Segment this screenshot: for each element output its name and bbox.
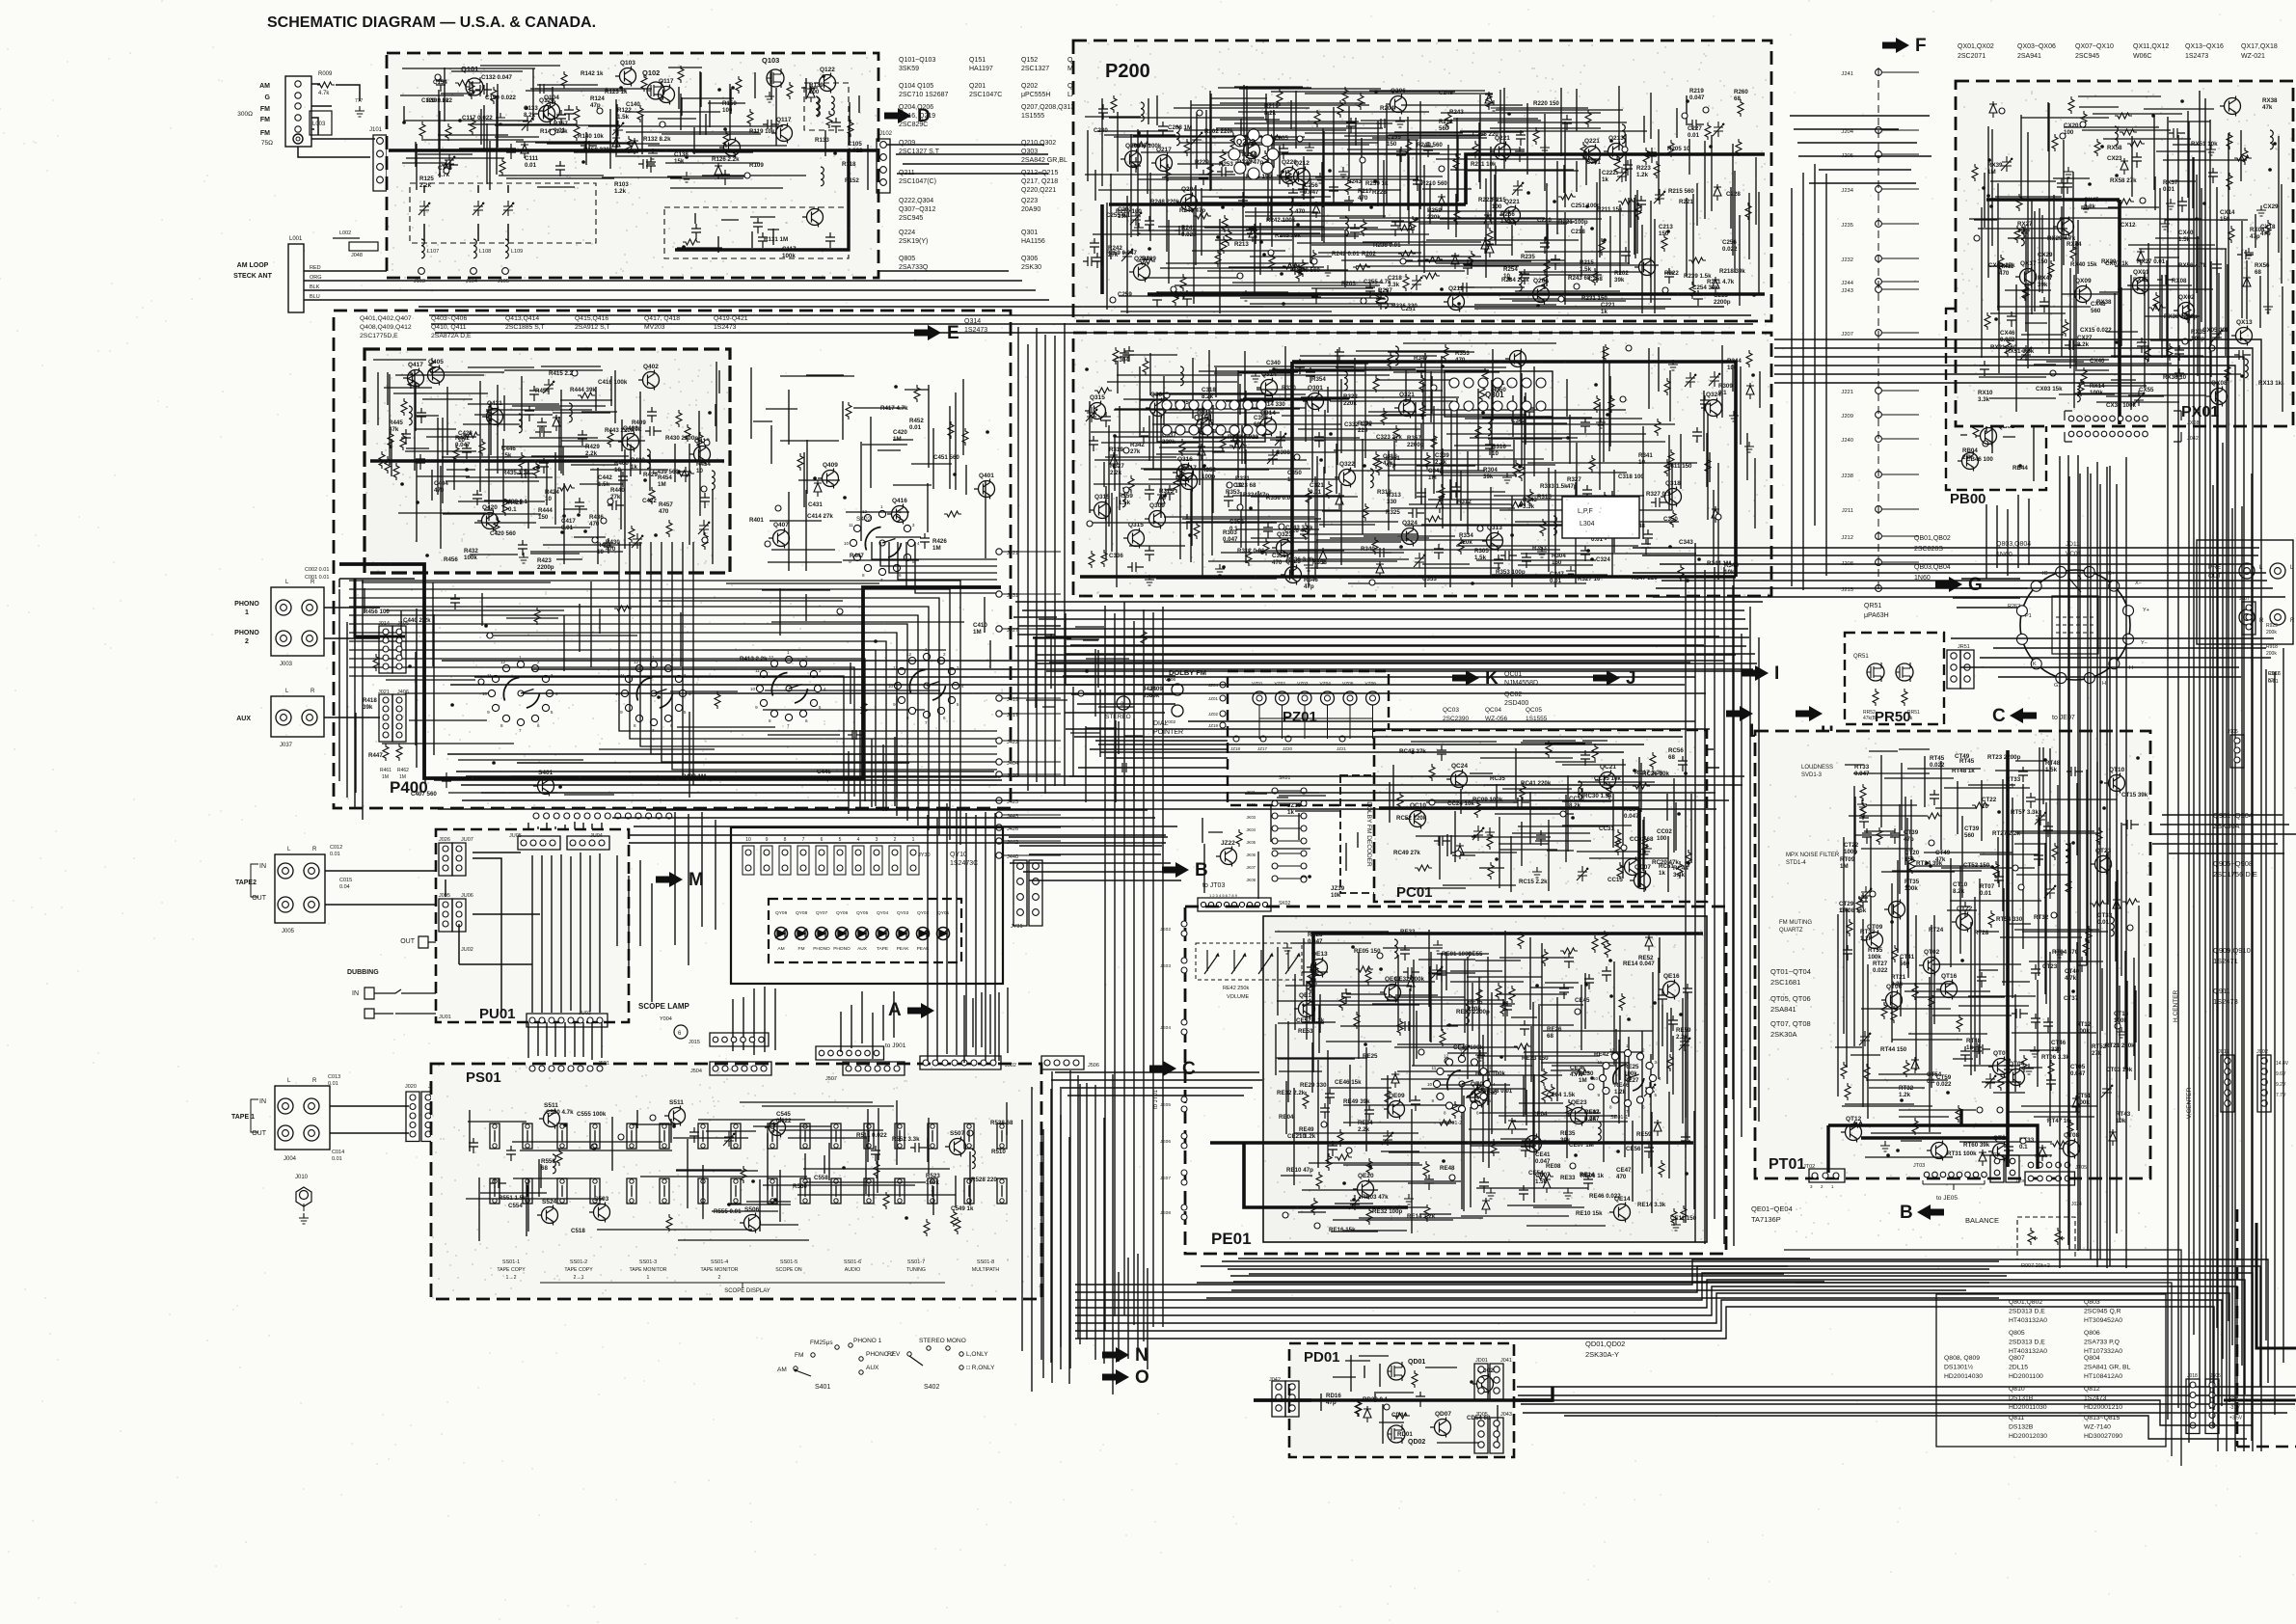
resistor — [1681, 1205, 1687, 1223]
pin — [1429, 799, 1435, 805]
svg-text:2: 2 — [245, 638, 249, 645]
pin — [1477, 526, 1483, 531]
transistor — [1294, 169, 1310, 185]
capacitor — [1408, 508, 1424, 518]
svg-text:POINTER: POINTER — [1153, 729, 1183, 736]
svg-text:8: 8 — [634, 723, 636, 728]
svg-text:1M: 1M — [658, 481, 666, 488]
svg-text:2SK30A-Y: 2SK30A-Y — [1585, 1350, 1619, 1359]
svg-text:Q315: Q315 — [1128, 522, 1144, 528]
svg-text:JU07: JU07 — [461, 837, 473, 843]
svg-text:C518: C518 — [571, 1228, 585, 1234]
pin — [1377, 953, 1383, 959]
transistor — [538, 778, 554, 795]
resistor — [1312, 964, 1318, 982]
svg-text:R351: R351 — [1386, 455, 1400, 462]
svg-text:RX36 10: RX36 10 — [2163, 374, 2187, 381]
resistor — [2063, 319, 2068, 337]
capacitor — [1580, 418, 1590, 433]
resistor — [429, 358, 435, 375]
resistor — [955, 1217, 960, 1234]
pin — [2060, 133, 2066, 139]
svg-text:QE01~QE04: QE01~QE04 — [1751, 1204, 1793, 1213]
ground — [2160, 219, 2170, 230]
ground — [1404, 1194, 1414, 1204]
resistor — [637, 105, 643, 122]
wire mesh PT01 — [1835, 747, 2148, 1167]
svg-text:RED: RED — [310, 265, 321, 271]
svg-text:SS01-3: SS01-3 — [639, 1259, 657, 1265]
svg-text:CT15 39k: CT15 39k — [2121, 792, 2148, 798]
svg-text:1M: 1M — [973, 629, 982, 636]
wire bus right loops from IF — [1774, 339, 2261, 1451]
transistor — [950, 1139, 966, 1155]
connector JX08/J042 row — [2064, 412, 2179, 414]
resistor — [2068, 96, 2074, 114]
heavy bus wire — [389, 149, 877, 152]
pin — [478, 679, 484, 685]
svg-text:JE02: JE02 — [1160, 927, 1171, 933]
svg-text:QT08: QT08 — [2064, 1132, 2080, 1139]
svg-text:R228: R228 — [1372, 189, 1387, 196]
ground — [1537, 547, 1547, 557]
pin — [1431, 385, 1437, 391]
diode — [1654, 1120, 1661, 1136]
pin — [701, 486, 707, 492]
svg-text:RT43: RT43 — [2116, 1111, 2131, 1118]
inductor — [1385, 289, 1388, 309]
svg-text:FM: FM — [795, 1352, 803, 1359]
pin — [1123, 447, 1129, 453]
svg-text:Q104 Q105: Q104 Q105 — [899, 83, 933, 90]
svg-text:Q221: Q221 — [1504, 199, 1520, 205]
svg-text:STEREO MONO: STEREO MONO — [919, 1338, 966, 1344]
svg-text:R259: R259 — [1427, 207, 1442, 214]
svg-text:7: 7 — [1626, 1109, 1629, 1114]
vertical bus right of P400 — [1105, 602, 1163, 1341]
capacitor — [1582, 485, 1592, 501]
resistor — [1998, 255, 2004, 272]
IC Q151 — [1157, 393, 1265, 442]
resistor — [1605, 940, 1610, 958]
svg-text:AUX: AUX — [857, 946, 868, 952]
svg-text:Q316: Q316 — [1177, 456, 1193, 463]
diode — [553, 415, 560, 431]
TAPE2 jacks J005 — [275, 854, 325, 923]
svg-text:3: 3 — [912, 523, 915, 528]
resistor — [1533, 127, 1539, 145]
svg-text:2DL15: 2DL15 — [2009, 1365, 2028, 1371]
diode — [2113, 897, 2120, 913]
svg-text:RE25: RE25 — [1363, 1053, 1378, 1060]
QY inner box — [769, 899, 961, 962]
diode — [1485, 92, 1493, 108]
svg-text:Q211: Q211 — [1448, 285, 1464, 292]
svg-text:0.1: 0.1 — [2019, 1144, 2028, 1150]
svg-text:R234 2.2k: R234 2.2k — [1501, 277, 1529, 284]
svg-text:R917: R917 — [2268, 671, 2280, 677]
resistor — [556, 1149, 562, 1166]
svg-text:100: 100 — [722, 107, 733, 114]
svg-text:CX18: CX18 — [2260, 224, 2276, 230]
trimmer — [698, 520, 710, 535]
svg-text:FM: FM — [260, 130, 270, 137]
capacitor — [1413, 176, 1422, 191]
svg-text:Q410, Q411: Q410, Q411 — [431, 324, 467, 331]
inductor — [1466, 1005, 1469, 1024]
svg-text:C451 560: C451 560 — [933, 454, 959, 461]
capacitor — [1376, 294, 1386, 310]
pin — [1369, 580, 1375, 585]
FET Q103 — [767, 69, 784, 87]
svg-text:RE14 1.2k: RE14 1.2k — [1407, 1213, 1436, 1220]
heavy bus wire — [370, 459, 724, 463]
capacitor — [1451, 482, 1461, 498]
resistor — [1912, 1118, 1918, 1135]
svg-text:J003: J003 — [280, 662, 293, 667]
svg-text:HD30027090: HD30027090 — [2084, 1433, 2122, 1440]
resistor — [1475, 423, 1481, 441]
svg-text:2: 2 — [1476, 1054, 1479, 1059]
svg-text:RX38: RX38 — [2262, 97, 2278, 104]
svg-text:C208 1M: C208 1M — [1168, 124, 1192, 131]
horizontals PE01 bottom to PT01 — [1197, 1261, 2007, 1298]
svg-text:2SC1885 S,T: 2SC1885 S,T — [505, 324, 545, 331]
arrow H — [1796, 706, 1823, 721]
capacitor — [1090, 238, 1099, 254]
resistor — [614, 606, 632, 611]
resistor — [1173, 288, 1178, 306]
ground — [1566, 566, 1576, 577]
trimmer — [1685, 372, 1696, 388]
svg-text:0.1: 0.1 — [508, 506, 517, 513]
svg-text:RE04: RE04 — [1279, 1114, 1294, 1121]
capacitor — [2066, 767, 2083, 776]
resistor — [1513, 460, 1519, 477]
svg-text:47p: 47p — [1904, 836, 1914, 843]
resistor — [2006, 367, 2012, 385]
ground — [1475, 1050, 1485, 1061]
resistor — [373, 654, 379, 671]
varistor VZ06 — [1366, 691, 1380, 705]
svg-text:R357: R357 — [1407, 435, 1421, 442]
resistor — [1174, 475, 1179, 493]
svg-text:R220 150: R220 150 — [1533, 100, 1559, 107]
svg-text:1M: 1M — [382, 774, 389, 780]
transistor — [1924, 958, 1940, 974]
svg-text:JK02: JK02 — [1246, 802, 1256, 807]
svg-text:C254 39k: C254 39k — [1692, 284, 1718, 291]
pin — [601, 518, 607, 524]
svg-text:TAPE MONITOR: TAPE MONITOR — [629, 1267, 666, 1273]
svg-text:WZ-021: WZ-021 — [2241, 53, 2265, 60]
svg-text:R103: R103 — [614, 181, 629, 188]
capacitor — [1416, 1392, 1425, 1407]
svg-text:R429: R429 — [585, 444, 600, 450]
svg-text:J243: J243 — [1841, 288, 1853, 294]
svg-text:0.022: 0.022 — [1722, 246, 1738, 253]
svg-text:C414 27k: C414 27k — [807, 513, 833, 520]
svg-text:RE14 3.3k: RE14 3.3k — [1637, 1202, 1666, 1208]
wire mesh P200 — [1083, 85, 1765, 315]
pin — [1626, 345, 1632, 351]
svg-text:R454: R454 — [535, 388, 550, 394]
svg-text:0.04: 0.04 — [339, 884, 350, 890]
svg-text:100p: 100p — [1202, 474, 1215, 480]
resistor — [1608, 395, 1614, 413]
svg-text:RT52: RT52 — [2092, 1043, 2107, 1050]
trimmer — [1983, 325, 1994, 340]
svg-text:R241: R241 — [1181, 225, 1196, 231]
svg-text:R426: R426 — [932, 538, 947, 545]
transistor — [1399, 400, 1416, 417]
svg-text:R352: R352 — [1202, 467, 1216, 474]
ground — [1880, 1141, 1890, 1151]
svg-text:R218 39k: R218 39k — [1719, 268, 1745, 275]
svg-text:L,P,F: L,P,F — [1578, 508, 1593, 515]
svg-text:R929: R929 — [2266, 623, 2278, 629]
svg-text:ORG: ORG — [310, 275, 322, 281]
svg-text:CT39: CT39 — [1964, 826, 1980, 832]
inductor — [1488, 417, 1491, 436]
svg-text:HD20001210: HD20001210 — [2084, 1404, 2122, 1411]
diode — [1319, 548, 1327, 564]
capacitor — [1522, 553, 1531, 568]
svg-text:JZ22: JZ22 — [1221, 840, 1235, 847]
svg-text:5: 5 — [957, 702, 959, 707]
svg-text:330: 330 — [1387, 499, 1397, 505]
svg-text:to JT03: to JT03 — [1202, 882, 1225, 889]
pin — [1346, 1148, 1352, 1153]
pin — [591, 1144, 597, 1150]
rotary switch SE01-2 — [1459, 1081, 1465, 1087]
svg-text:C014: C014 — [332, 1150, 344, 1155]
resistor — [1542, 949, 1548, 966]
resistor — [1518, 932, 1524, 949]
capacitor — [417, 408, 426, 423]
transistor — [979, 481, 995, 498]
capacitor — [1175, 226, 1191, 235]
pin — [1929, 840, 1934, 846]
svg-text:470: 470 — [1358, 195, 1368, 202]
svg-text:JY31: JY31 — [1011, 924, 1023, 930]
inductor — [1598, 1122, 1601, 1141]
svg-text:1S2473C: 1S2473C — [950, 860, 978, 867]
transistor — [1090, 403, 1106, 420]
transistor — [1149, 511, 1166, 528]
capacitor — [1325, 1089, 1335, 1104]
trimmer — [1985, 1073, 1996, 1089]
resistor — [379, 451, 385, 469]
svg-text:CE55: CE55 — [1468, 951, 1483, 958]
svg-text:C132 0.047: C132 0.047 — [481, 74, 513, 81]
resistor — [715, 691, 720, 709]
wire mesh PS01 — [466, 1099, 1013, 1241]
resistor — [1585, 110, 1591, 127]
svg-text:RT60 39k: RT60 39k — [1963, 1142, 1990, 1149]
resistor — [2122, 899, 2140, 905]
resistor — [1314, 110, 1320, 127]
capacitor — [416, 454, 425, 470]
wire bus to PZ01 — [1063, 676, 1179, 713]
capacitor — [910, 1143, 927, 1152]
resistor — [1089, 551, 1094, 568]
capacitor — [825, 232, 835, 248]
svg-text:CX12: CX12 — [2120, 222, 2136, 229]
transistor — [1495, 144, 1511, 160]
svg-text:QX01: QX01 — [2133, 269, 2149, 276]
resistor — [1592, 744, 1598, 761]
wire mesh tuner — [389, 60, 877, 195]
resistor — [2086, 926, 2092, 943]
svg-text:27k: 27k — [1130, 448, 1141, 455]
svg-text:RE14 0.047: RE14 0.047 — [1623, 961, 1655, 967]
svg-text:R327: R327 — [1110, 463, 1124, 470]
svg-text:Q803: Q803 — [2084, 1299, 2100, 1306]
svg-text:2SC1775D,E: 2SC1775D,E — [360, 333, 398, 339]
capacitor — [2004, 1142, 2013, 1157]
svg-text:C001 0.01: C001 0.01 — [305, 575, 329, 581]
resistor — [1262, 150, 1268, 168]
pin — [1294, 454, 1300, 460]
pin — [2018, 884, 2024, 890]
PX01 block border — [1956, 81, 2293, 426]
resistor — [1264, 135, 1282, 141]
svg-text:DUBBING: DUBBING — [347, 969, 379, 976]
pin — [444, 168, 449, 174]
svg-text:Q419-Q421: Q419-Q421 — [714, 315, 748, 322]
capacitor — [1098, 104, 1108, 120]
pin — [650, 1115, 656, 1121]
svg-text:R259 1k: R259 1k — [1365, 180, 1389, 187]
pin — [1301, 877, 1307, 882]
svg-text:RE16 15k: RE16 15k — [1329, 1227, 1356, 1233]
diode — [1312, 202, 1320, 218]
svg-text:100k: 100k — [1904, 885, 1918, 892]
svg-text:1→2: 1→2 — [506, 1275, 517, 1281]
svg-text:QC02: QC02 — [1504, 691, 1522, 698]
IF out sub-box L105 — [804, 83, 849, 130]
capacitor — [535, 84, 552, 94]
svg-text:CX27: CX27 — [2077, 335, 2093, 341]
resistor — [649, 487, 655, 504]
svg-text:μPA63H: μPA63H — [1864, 612, 1889, 619]
PHONO input jacks J003 — [271, 587, 324, 656]
svg-text:S402: S402 — [924, 1384, 939, 1391]
resistor — [578, 392, 595, 398]
svg-text:6: 6 — [821, 837, 824, 843]
svg-text:E: E — [947, 323, 959, 343]
svg-text:SS01-7: SS01-7 — [907, 1259, 925, 1265]
svg-text:Q318: Q318 — [1665, 480, 1681, 487]
ground — [1532, 867, 1542, 878]
svg-text:TUNING: TUNING — [906, 1267, 926, 1273]
svg-text:QE20: QE20 — [1358, 1173, 1374, 1179]
svg-text:QD07: QD07 — [1435, 1411, 1451, 1418]
svg-text:QY04: QY04 — [877, 910, 889, 916]
svg-text:Q408,Q409,Q412: Q408,Q409,Q412 — [360, 324, 412, 331]
capacitor — [1859, 813, 1869, 828]
svg-text:0.022: 0.022 — [1873, 967, 1888, 974]
svg-text:RE46: RE46 — [1614, 1082, 1630, 1089]
resistor — [677, 471, 694, 476]
resistor — [1372, 537, 1378, 555]
pin — [1400, 258, 1406, 264]
svg-text:RE23 150: RE23 150 — [1522, 1055, 1549, 1062]
svg-text:R245 100k: R245 100k — [1132, 143, 1162, 149]
rotary switch S401-5 — [879, 540, 885, 546]
capacitor — [442, 772, 451, 788]
pin — [1110, 297, 1116, 303]
power block partial border right — [2237, 1209, 2296, 1447]
arrow D — [884, 108, 911, 123]
resistor — [2227, 132, 2232, 149]
pin — [435, 74, 441, 80]
resistor — [2265, 220, 2271, 237]
LED QY09 — [775, 928, 788, 940]
capacitor — [450, 594, 460, 609]
svg-text:CX48: CX48 — [2091, 301, 2106, 308]
heavy bus wire — [2118, 200, 2121, 424]
diode — [2072, 1096, 2080, 1112]
svg-text:JZ02: JZ02 — [1208, 712, 1219, 717]
pin — [1588, 1084, 1594, 1090]
svg-text:FM MUTING: FM MUTING — [1779, 920, 1812, 926]
svg-text:J010: J010 — [295, 1175, 309, 1180]
svg-text:CT59: CT59 — [1936, 1074, 1952, 1081]
svg-text:S507: S507 — [950, 1130, 965, 1137]
transistor — [1221, 849, 1237, 865]
svg-text:1k: 1k — [1659, 870, 1665, 877]
svg-text:BLU: BLU — [310, 294, 320, 300]
vertical risers left of P400 — [339, 580, 363, 820]
resistor — [1246, 549, 1252, 566]
svg-text:JZ01: JZ01 — [1208, 696, 1219, 701]
svg-text:SS01-6: SS01-6 — [844, 1259, 861, 1265]
svg-text:RE59: RE59 — [1676, 1027, 1691, 1034]
resistor — [1354, 1012, 1360, 1029]
svg-text:L002: L002 — [339, 230, 351, 236]
svg-text:Q122: Q122 — [820, 67, 835, 73]
transistor — [2109, 775, 2125, 792]
resistor — [1614, 157, 1620, 175]
resistor — [1443, 344, 1448, 362]
capacitor — [1977, 972, 1986, 988]
capacitor — [1525, 403, 1534, 419]
arrow I — [1742, 665, 1769, 681]
svg-text:12: 12 — [1609, 1048, 1615, 1053]
svg-text:R212: R212 — [1439, 119, 1453, 125]
wire bus PD01 to right — [1517, 1387, 2296, 1413]
capacitor — [2234, 350, 2251, 360]
svg-text:Q420: Q420 — [482, 504, 498, 511]
svg-text:R132 8.2k: R132 8.2k — [643, 136, 671, 143]
resistor — [1111, 95, 1117, 113]
pin — [2127, 925, 2133, 931]
capacitor — [1693, 290, 1703, 306]
svg-text:C205: C205 — [1274, 135, 1288, 142]
capacitor — [2034, 851, 2043, 866]
svg-text:QT01~QT04: QT01~QT04 — [1770, 967, 1811, 976]
svg-text:R353 100p: R353 100p — [1496, 569, 1526, 576]
pin — [2020, 1138, 2026, 1144]
svg-text:Q806: Q806 — [2084, 1330, 2100, 1337]
svg-text:J211: J211 — [1842, 508, 1853, 514]
svg-text:Q202: Q202 — [1236, 138, 1256, 147]
svg-text:RT45: RT45 — [1930, 755, 1945, 762]
svg-text:1k: 1k — [1602, 176, 1608, 183]
capacitor — [1515, 147, 1525, 162]
